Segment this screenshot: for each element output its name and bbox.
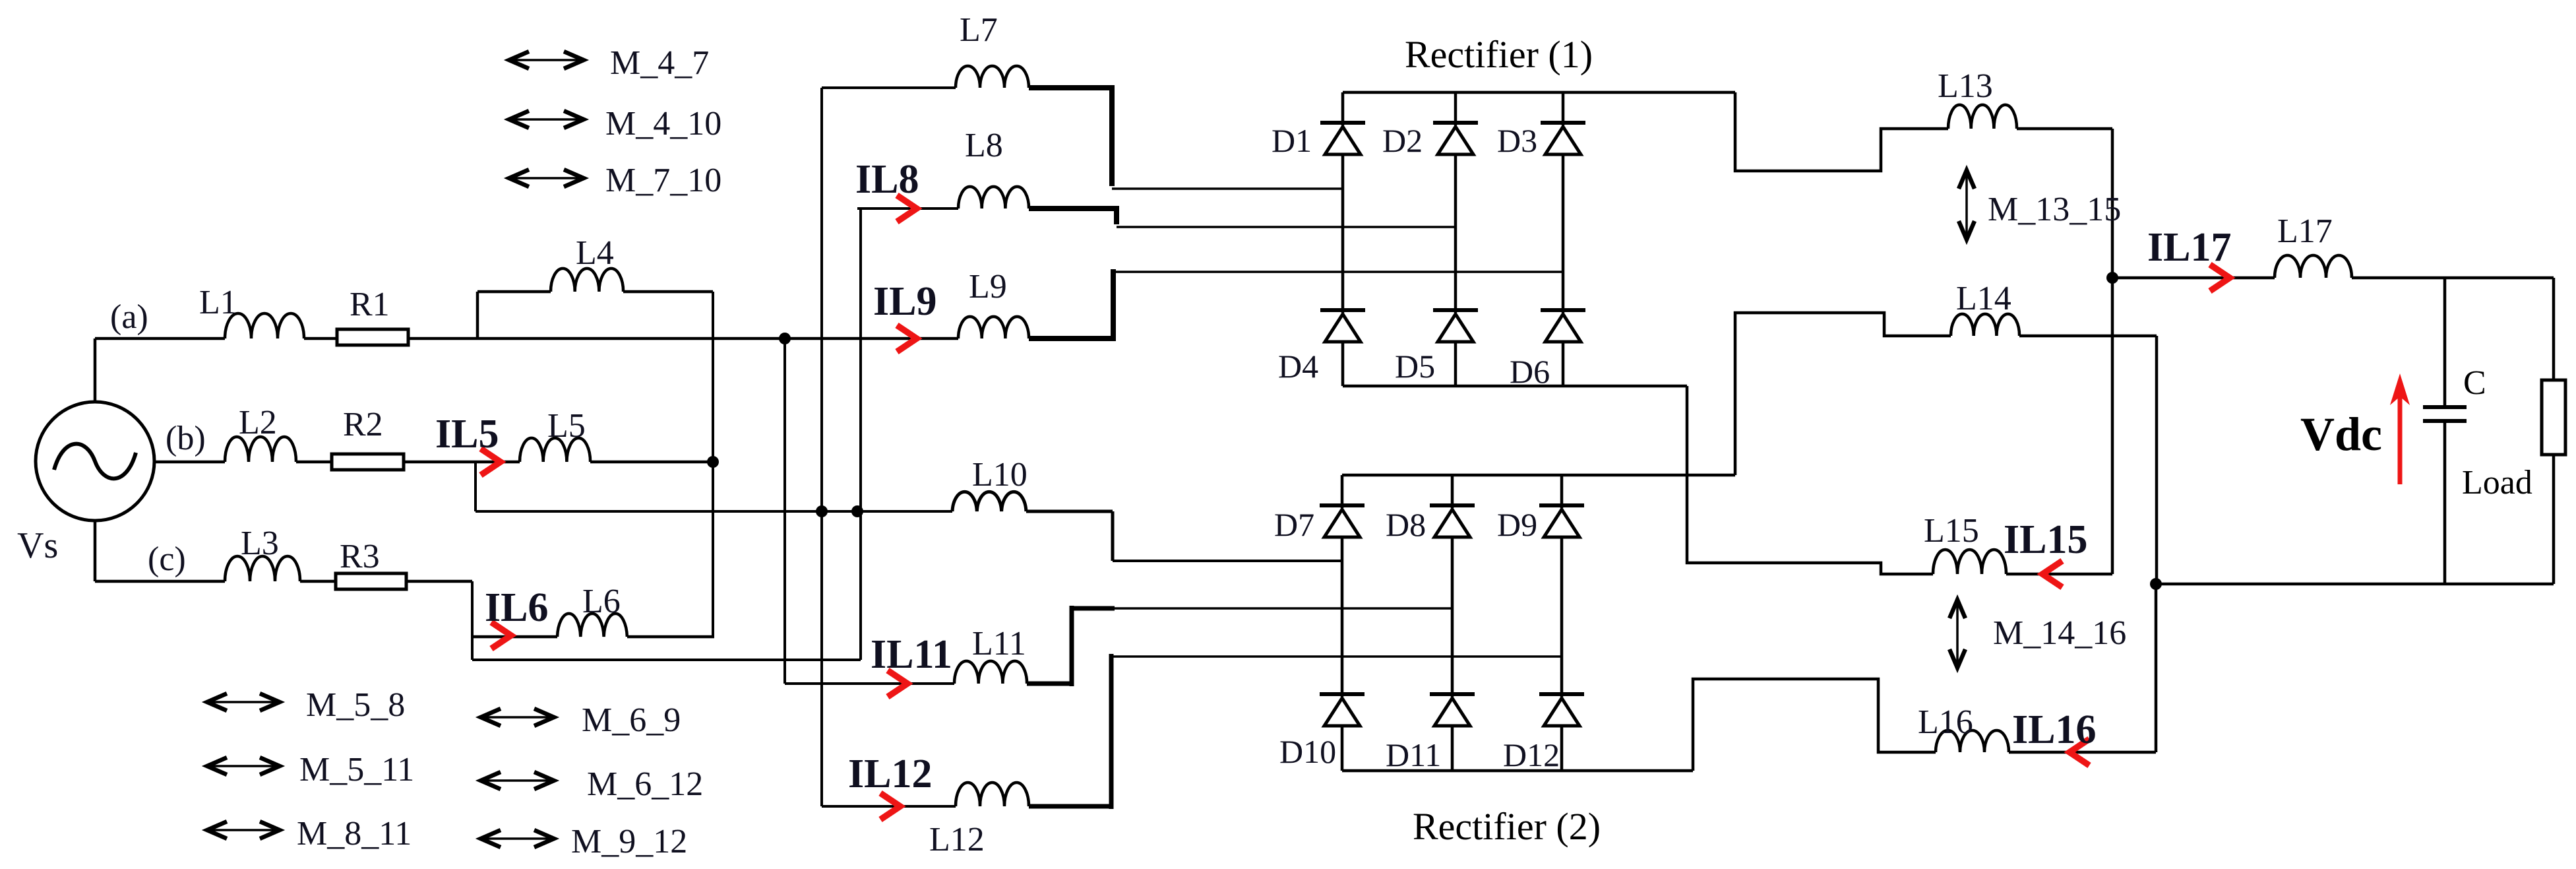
svg-text:D1: D1 (1272, 122, 1312, 159)
svg-text:L15: L15 (1924, 512, 1979, 550)
svg-text:D4: D4 (1278, 348, 1318, 385)
svg-text:C: C (2463, 364, 2486, 402)
svg-text:M_6_9: M_6_9 (582, 701, 681, 739)
svg-text:R2: R2 (343, 406, 383, 443)
svg-text:L1: L1 (199, 284, 237, 321)
svg-text:L9: L9 (969, 268, 1007, 306)
svg-text:(c): (c) (148, 540, 186, 578)
svg-text:L16: L16 (1918, 703, 1973, 741)
svg-text:D7: D7 (1274, 506, 1314, 543)
svg-text:D3: D3 (1497, 122, 1537, 159)
svg-text:(b): (b) (166, 420, 206, 457)
svg-text:L6: L6 (582, 583, 621, 620)
svg-text:L8: L8 (965, 127, 1003, 164)
svg-text:IL11: IL11 (871, 632, 952, 677)
svg-text:IL9: IL9 (873, 279, 936, 324)
svg-text:Rectifier (1): Rectifier (1) (1405, 33, 1593, 76)
svg-text:R1: R1 (350, 286, 390, 323)
svg-text:L14: L14 (1956, 280, 2011, 317)
svg-text:D10: D10 (1279, 733, 1336, 770)
svg-text:Load: Load (2462, 464, 2532, 501)
svg-text:L5: L5 (547, 407, 586, 445)
svg-text:L7: L7 (960, 11, 998, 49)
svg-text:L4: L4 (576, 234, 614, 272)
svg-text:M_14_16: M_14_16 (1993, 614, 2126, 652)
svg-text:Vs: Vs (17, 525, 58, 566)
svg-text:L3: L3 (241, 525, 279, 562)
svg-text:M_4_7: M_4_7 (610, 44, 709, 82)
svg-text:R3: R3 (340, 538, 380, 575)
svg-text:M_9_12: M_9_12 (571, 823, 687, 860)
svg-text:L11: L11 (972, 625, 1026, 662)
svg-text:L12: L12 (929, 821, 985, 858)
svg-text:IL17: IL17 (2147, 225, 2231, 270)
svg-text:M_8_11: M_8_11 (297, 815, 412, 853)
svg-text:IL16: IL16 (2012, 707, 2096, 752)
svg-text:Vdc: Vdc (2300, 408, 2382, 461)
svg-text:D2: D2 (1382, 122, 1423, 159)
svg-text:D5: D5 (1395, 348, 1435, 385)
svg-text:Rectifier (2): Rectifier (2) (1413, 805, 1601, 848)
svg-text:M_13_15: M_13_15 (1988, 191, 2121, 228)
svg-text:M_4_10: M_4_10 (605, 105, 721, 143)
svg-text:IL6: IL6 (485, 585, 548, 630)
svg-text:L17: L17 (2277, 212, 2333, 250)
svg-text:D8: D8 (1386, 506, 1426, 543)
svg-text:D12: D12 (1503, 736, 1560, 773)
svg-text:IL12: IL12 (848, 752, 932, 796)
svg-text:IL8: IL8 (855, 157, 919, 202)
svg-text:M_6_12: M_6_12 (587, 765, 703, 803)
svg-text:D6: D6 (1510, 353, 1550, 390)
svg-text:M_7_10: M_7_10 (605, 162, 721, 199)
svg-text:L13: L13 (1938, 67, 1993, 105)
svg-text:(a): (a) (110, 298, 148, 336)
svg-text:M_5_8: M_5_8 (306, 686, 405, 724)
svg-text:D11: D11 (1386, 736, 1441, 773)
svg-text:L2: L2 (239, 404, 277, 441)
svg-text:D9: D9 (1497, 506, 1537, 543)
svg-text:IL15: IL15 (2004, 517, 2087, 562)
svg-text:M_5_11: M_5_11 (299, 751, 414, 789)
svg-text:IL5: IL5 (435, 412, 499, 457)
svg-text:L10: L10 (972, 456, 1027, 494)
